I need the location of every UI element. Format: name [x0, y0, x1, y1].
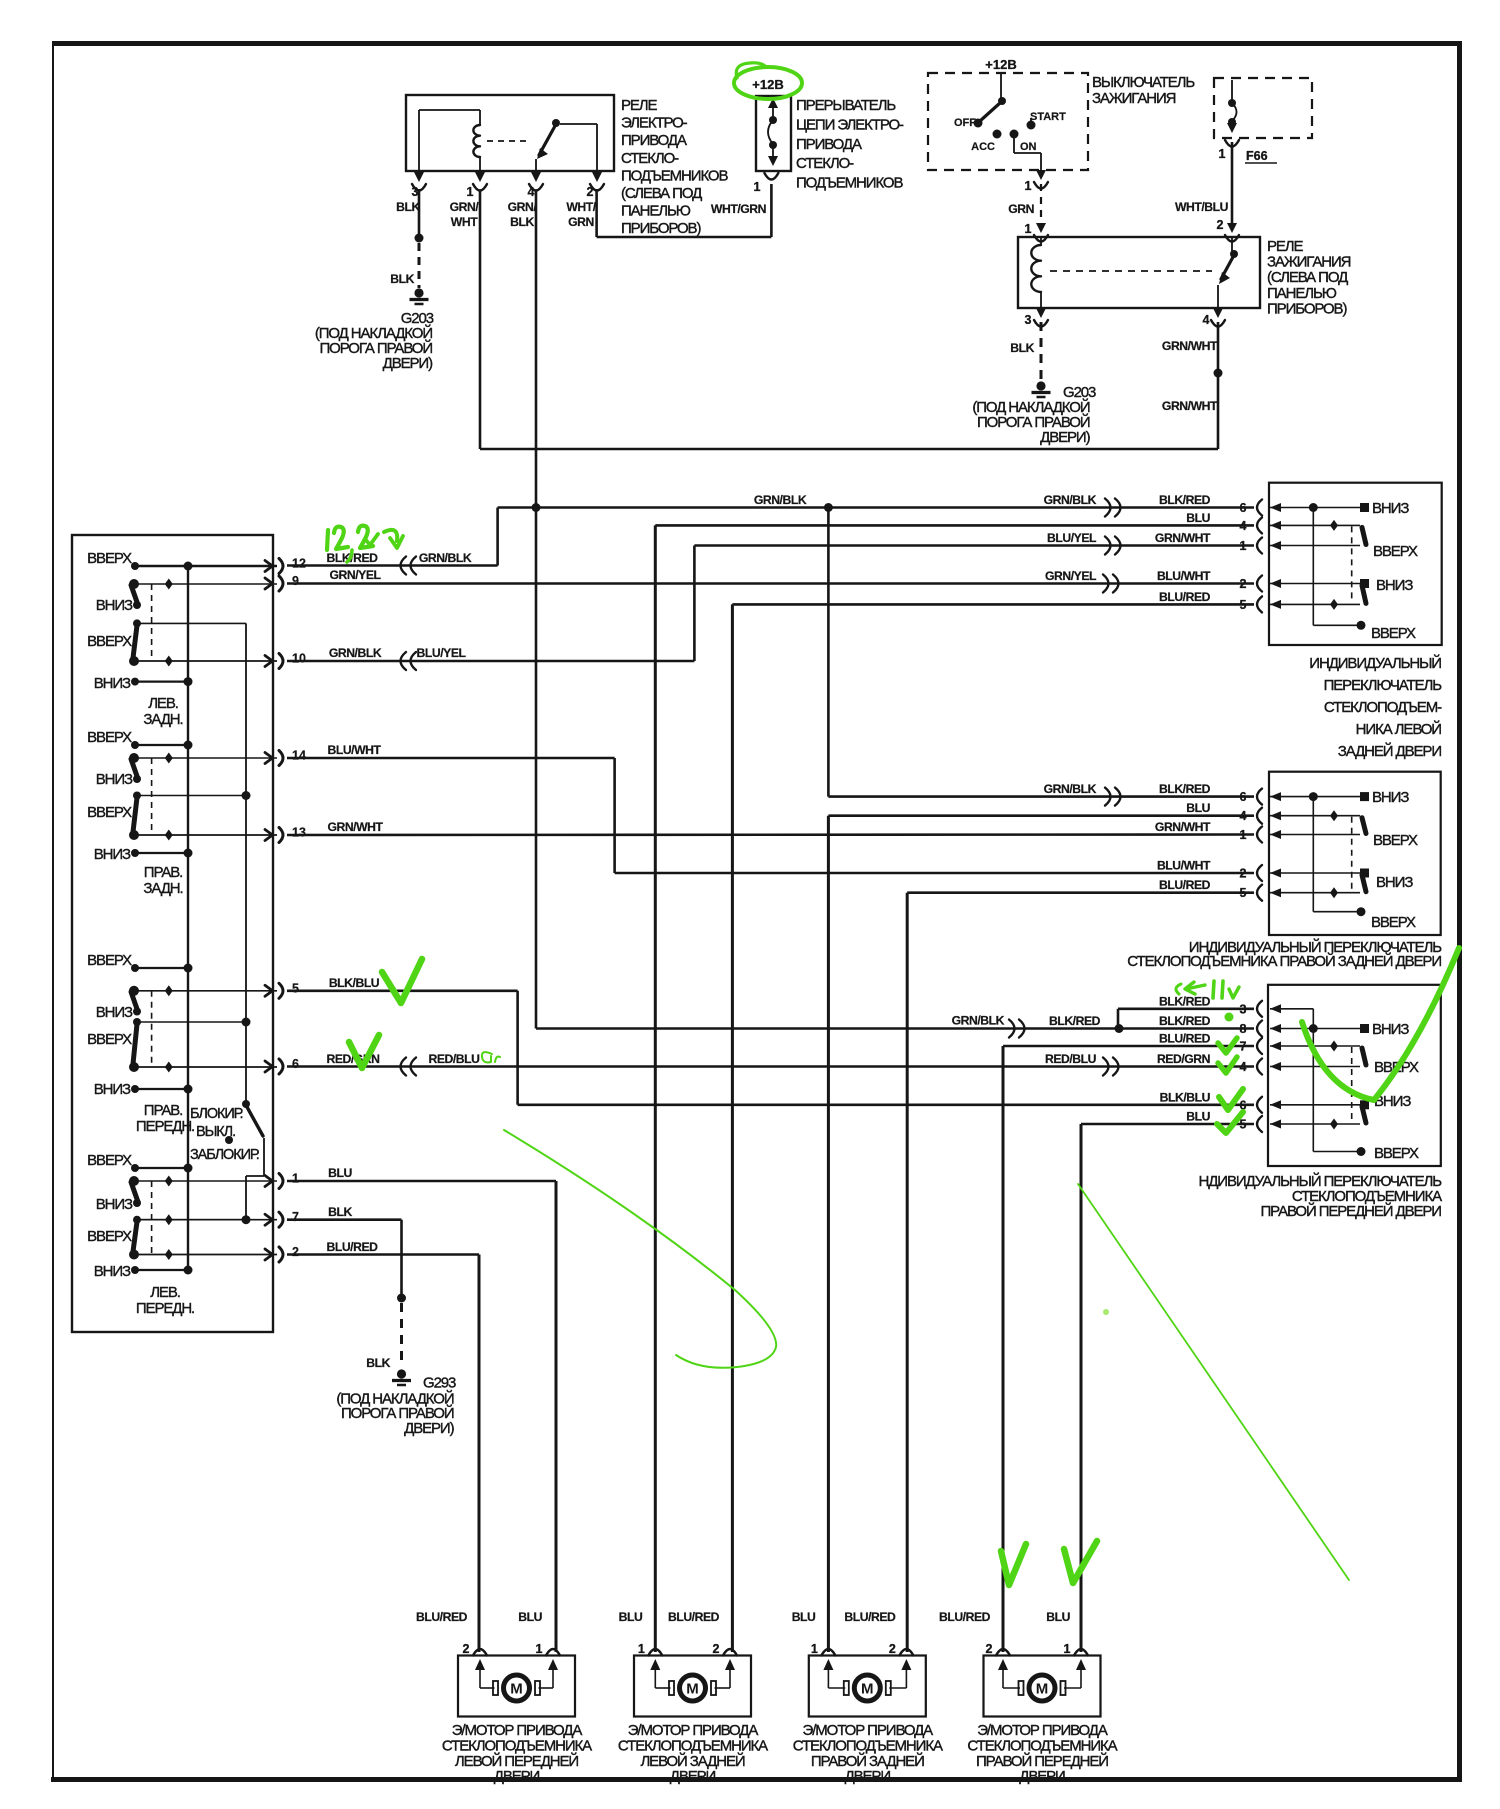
svg-text:BLK: BLK: [366, 1356, 390, 1370]
svg-text:BLU: BLU: [792, 1610, 816, 1624]
svg-text:ВВЕРХ: ВВЕРХ: [87, 633, 132, 650]
svg-text:ON: ON: [1020, 141, 1037, 153]
svg-text:1: 1: [1064, 1642, 1071, 1656]
svg-text:5: 5: [1240, 886, 1247, 900]
svg-text:ПАНЕЛЬЮ: ПАНЕЛЬЮ: [621, 203, 691, 220]
svg-text:10: 10: [292, 652, 306, 666]
svg-text:ВВЕРХ: ВВЕРХ: [1373, 832, 1418, 849]
svg-text:GRN/WHT: GRN/WHT: [1162, 339, 1218, 353]
svg-text:BLU/RED: BLU/RED: [1159, 1032, 1211, 1046]
svg-text:ЗАДН.: ЗАДН.: [143, 711, 182, 728]
svg-text:1: 1: [1219, 147, 1226, 161]
svg-text:BLK: BLK: [510, 215, 534, 229]
svg-text:ДВЕРИ: ДВЕРИ: [670, 1768, 716, 1785]
svg-text:BLU/WHT: BLU/WHT: [327, 743, 381, 757]
svg-text:GRN/YEL: GRN/YEL: [329, 568, 381, 582]
svg-text:ACC: ACC: [971, 141, 995, 153]
svg-text:ЗАЖИГАНИЯ: ЗАЖИГАНИЯ: [1267, 254, 1351, 271]
svg-text:BLK/RED: BLK/RED: [1159, 1014, 1211, 1028]
svg-text:BLU: BLU: [1186, 801, 1210, 815]
svg-text:ЛЕВ.: ЛЕВ.: [148, 695, 178, 712]
svg-text:СТЕКЛО-: СТЕКЛО-: [796, 155, 854, 172]
svg-text:ВНИЗ: ВНИЗ: [1376, 874, 1413, 891]
svg-text:ВВЕРХ: ВВЕРХ: [87, 729, 132, 746]
svg-text:3: 3: [1025, 313, 1032, 327]
svg-text:ПРИВОДА: ПРИВОДА: [621, 132, 687, 149]
svg-text:4: 4: [1203, 313, 1210, 327]
svg-text:1: 1: [1240, 828, 1247, 842]
svg-text:ВВЕРХ: ВВЕРХ: [87, 1031, 132, 1048]
svg-text:1: 1: [1025, 222, 1032, 236]
svg-text:BLU/RED: BLU/RED: [416, 1610, 468, 1624]
svg-text:4: 4: [1240, 519, 1247, 533]
svg-text:ПРАВОЙ ПЕРЕДНЕЙ ДВЕРИ: ПРАВОЙ ПЕРЕДНЕЙ ДВЕРИ: [1260, 1202, 1441, 1220]
svg-text:BLU/WHT: BLU/WHT: [1157, 859, 1211, 873]
svg-text:BLU: BLU: [328, 1166, 352, 1180]
svg-text:+12В: +12В: [752, 77, 783, 92]
svg-text:6: 6: [1240, 790, 1247, 804]
svg-text:GRN/: GRN/: [508, 200, 538, 214]
svg-text:5: 5: [292, 981, 299, 995]
svg-text:BLK/BLU: BLK/BLU: [1160, 1090, 1211, 1104]
svg-text:ВНИЗ: ВНИЗ: [1372, 1021, 1409, 1038]
svg-text:BLU/RED: BLU/RED: [939, 1610, 991, 1624]
svg-text:ВНИЗ: ВНИЗ: [94, 846, 131, 863]
svg-text:ВЫКЛ.: ВЫКЛ.: [196, 1124, 235, 1140]
svg-text:M: M: [1036, 1681, 1049, 1698]
svg-text:RED/BLU: RED/BLU: [428, 1052, 480, 1066]
svg-text:M: M: [861, 1681, 874, 1698]
svg-text:GRN/: GRN/: [450, 200, 480, 214]
svg-text:ВВЕРХ: ВВЕРХ: [87, 952, 132, 969]
svg-text:2: 2: [1217, 218, 1224, 232]
svg-text:ДВЕРИ): ДВЕРИ): [404, 1420, 454, 1437]
svg-text:ЛЕВОЙ ЗАДНЕЙ: ЛЕВОЙ ЗАДНЕЙ: [640, 1752, 744, 1770]
svg-text:GRN/BLK: GRN/BLK: [419, 551, 472, 565]
svg-text:6: 6: [1240, 501, 1247, 515]
svg-text:GRN/BLK: GRN/BLK: [754, 493, 807, 507]
svg-text:ИНДИВИДУАЛЬНЫЙ: ИНДИВИДУАЛЬНЫЙ: [1309, 654, 1441, 672]
svg-text:СТЕКЛО-: СТЕКЛО-: [621, 150, 679, 167]
svg-text:ЗАЖИГАНИЯ: ЗАЖИГАНИЯ: [1092, 90, 1176, 107]
svg-text:BLK: BLK: [328, 1205, 352, 1219]
svg-text:ПЕРЕДН.: ПЕРЕДН.: [136, 1300, 194, 1317]
svg-text:ДВЕРИ: ДВЕРИ: [845, 1768, 891, 1785]
svg-text:BLU/YEL: BLU/YEL: [417, 646, 467, 660]
svg-text:OFF: OFF: [954, 117, 976, 129]
svg-text:BLK/RED: BLK/RED: [1159, 994, 1211, 1008]
svg-text:ПОДЪЕМНИКОВ: ПОДЪЕМНИКОВ: [621, 167, 729, 184]
svg-text:13: 13: [292, 826, 306, 840]
svg-text:ПРАВОЙ ЗАДНЕЙ: ПРАВОЙ ЗАДНЕЙ: [811, 1752, 924, 1770]
svg-text:ПРЕРЫВАТЕЛЬ: ПРЕРЫВАТЕЛЬ: [796, 97, 896, 114]
svg-text:3: 3: [412, 185, 419, 199]
svg-text:ВВЕРХ: ВВЕРХ: [87, 550, 132, 567]
svg-text:GRN: GRN: [568, 215, 594, 229]
svg-text:12: 12: [292, 557, 306, 571]
svg-text:ЗАДН.: ЗАДН.: [143, 880, 182, 897]
svg-text:ВНИЗ: ВНИЗ: [96, 771, 133, 788]
svg-text:BLU/RED: BLU/RED: [326, 1240, 378, 1254]
svg-text:ЭЛЕКТРО-: ЭЛЕКТРО-: [621, 115, 688, 132]
svg-text:4: 4: [1240, 1060, 1247, 1074]
svg-text:2: 2: [1240, 577, 1247, 591]
svg-text:2: 2: [587, 185, 594, 199]
svg-text:GRN/WHT: GRN/WHT: [1162, 399, 1218, 413]
svg-text:BLU/RED: BLU/RED: [1159, 590, 1211, 604]
svg-text:RED/BLU: RED/BLU: [1045, 1052, 1097, 1066]
svg-text:2: 2: [463, 1642, 470, 1656]
svg-text:5: 5: [1240, 598, 1247, 612]
svg-text:START: START: [1030, 111, 1066, 123]
svg-text:СТЕКЛОПОДЪЕМНИКА ПРАВОЙ ЗАДНЕЙ: СТЕКЛОПОДЪЕМНИКА ПРАВОЙ ЗАДНЕЙ ДВЕРИ: [1127, 952, 1441, 970]
svg-text:8: 8: [1240, 1022, 1247, 1036]
svg-text:1: 1: [811, 1642, 818, 1656]
svg-text:BLU/RED: BLU/RED: [668, 1610, 720, 1624]
svg-text:ПРАВ.: ПРАВ.: [144, 864, 182, 881]
svg-text:ПАНЕЛЬЮ: ПАНЕЛЬЮ: [1267, 285, 1337, 302]
svg-text:ПРИБОРОВ): ПРИБОРОВ): [1267, 300, 1347, 317]
svg-text:ДВЕРИ: ДВЕРИ: [494, 1768, 540, 1785]
svg-text:ВНИЗ: ВНИЗ: [94, 675, 131, 692]
svg-text:GRN/WHT: GRN/WHT: [1155, 531, 1211, 545]
svg-text:9: 9: [292, 574, 299, 588]
svg-text:2: 2: [986, 1642, 993, 1656]
svg-text:ВНИЗ: ВНИЗ: [94, 1263, 131, 1280]
svg-text:WHT/BLU: WHT/BLU: [1175, 200, 1229, 214]
svg-text:RED/GRN: RED/GRN: [1157, 1052, 1210, 1066]
svg-text:GRN/BLK: GRN/BLK: [1044, 493, 1097, 507]
svg-text:GRN: GRN: [1008, 202, 1034, 216]
svg-text:ВНИЗ: ВНИЗ: [1372, 500, 1409, 517]
svg-text:ВНИЗ: ВНИЗ: [96, 1004, 133, 1021]
svg-text:2: 2: [713, 1642, 720, 1656]
svg-text:WHT/GRN: WHT/GRN: [711, 202, 766, 216]
svg-text:ПОДЪЕМНИКОВ: ПОДЪЕМНИКОВ: [796, 175, 904, 192]
svg-text:2: 2: [292, 1245, 299, 1259]
svg-text:GRN/YEL: GRN/YEL: [1045, 569, 1097, 583]
svg-text:ВВЕРХ: ВВЕРХ: [87, 804, 132, 821]
svg-text:ЗАБЛОКИР.: ЗАБЛОКИР.: [190, 1147, 259, 1163]
svg-text:ЛЕВОЙ ПЕРЕДНЕЙ: ЛЕВОЙ ПЕРЕДНЕЙ: [455, 1752, 578, 1770]
svg-text:РЕЛЕ: РЕЛЕ: [1267, 238, 1304, 255]
svg-text:BLK: BLK: [390, 272, 414, 286]
svg-text:M: M: [510, 1681, 523, 1698]
svg-text:7: 7: [292, 1210, 299, 1224]
svg-text:BLK/BLU: BLK/BLU: [329, 976, 380, 990]
svg-text:BLK/RED: BLK/RED: [1049, 1014, 1101, 1028]
svg-text:1: 1: [638, 1642, 645, 1656]
svg-text:ВНИЗ: ВНИЗ: [94, 1081, 131, 1098]
svg-text:14: 14: [292, 749, 306, 763]
svg-text:BLU: BLU: [1046, 1610, 1070, 1624]
svg-text:+12В: +12В: [985, 57, 1016, 72]
svg-text:GRN/BLK: GRN/BLK: [329, 646, 382, 660]
svg-text:1: 1: [292, 1172, 299, 1186]
svg-text:РЕЛЕ: РЕЛЕ: [621, 97, 658, 114]
svg-text:ДВЕРИ): ДВЕРИ): [383, 355, 433, 372]
svg-text:GRN/BLK: GRN/BLK: [1044, 782, 1097, 796]
svg-text:BLU: BLU: [518, 1610, 542, 1624]
svg-text:BLU/RED: BLU/RED: [844, 1610, 896, 1624]
svg-text:ПРИВОДА: ПРИВОДА: [796, 136, 862, 153]
svg-text:1: 1: [1240, 539, 1247, 553]
svg-text:ДВЕРИ): ДВЕРИ): [1040, 429, 1090, 446]
svg-text:ЛЕВ.: ЛЕВ.: [150, 1284, 180, 1301]
svg-text:1: 1: [754, 180, 761, 194]
svg-text:СТЕКЛОПОДЪЕМ-: СТЕКЛОПОДЪЕМ-: [1324, 699, 1442, 716]
svg-text:BLU: BLU: [619, 1610, 643, 1624]
svg-text:GRN/WHT: GRN/WHT: [1155, 820, 1211, 834]
svg-text:2: 2: [1240, 867, 1247, 881]
svg-text:ПЕРЕКЛЮЧАТЕЛЬ: ПЕРЕКЛЮЧАТЕЛЬ: [1324, 677, 1443, 694]
svg-text:БЛОКИР.: БЛОКИР.: [190, 1106, 243, 1122]
svg-text:ВЫКЛЮЧАТЕЛЬ: ВЫКЛЮЧАТЕЛЬ: [1092, 74, 1195, 91]
svg-text:(СЛЕВА ПОД: (СЛЕВА ПОД: [1267, 269, 1348, 286]
svg-text:4: 4: [1240, 809, 1247, 823]
svg-text:BLK/RED: BLK/RED: [1159, 493, 1211, 507]
svg-text:4: 4: [528, 185, 535, 199]
svg-text:1: 1: [467, 185, 474, 199]
svg-text:ВВЕРХ: ВВЕРХ: [1374, 1145, 1419, 1162]
svg-text:6: 6: [292, 1057, 299, 1071]
svg-text:GRN/WHT: GRN/WHT: [327, 820, 383, 834]
svg-text:7: 7: [1240, 1040, 1247, 1054]
svg-text:НИКА ЛЕВОЙ: НИКА ЛЕВОЙ: [1356, 720, 1442, 738]
svg-text:M: M: [686, 1681, 699, 1698]
svg-text:ПРАВОЙ ПЕРЕДНЕЙ: ПРАВОЙ ПЕРЕДНЕЙ: [976, 1752, 1108, 1770]
svg-text:BLU: BLU: [1186, 511, 1210, 525]
svg-text:ВВЕРХ: ВВЕРХ: [1371, 625, 1416, 642]
svg-text:WHT/: WHT/: [566, 200, 596, 214]
svg-text:G293: G293: [423, 1375, 456, 1392]
svg-text:ДВЕРИ: ДВЕРИ: [1019, 1768, 1065, 1785]
svg-text:BLK: BLK: [1010, 341, 1034, 355]
svg-text:ПЕРЕДН.: ПЕРЕДН.: [136, 1118, 194, 1135]
svg-text:BLU: BLU: [1186, 1110, 1210, 1124]
svg-text:ЦЕПИ ЭЛЕКТРО-: ЦЕПИ ЭЛЕКТРО-: [796, 116, 904, 133]
svg-text:ВНИЗ: ВНИЗ: [1372, 789, 1409, 806]
svg-text:1: 1: [1025, 179, 1032, 193]
svg-text:BLU/YEL: BLU/YEL: [1047, 531, 1097, 545]
svg-text:BLK/RED: BLK/RED: [1159, 782, 1211, 796]
svg-text:3: 3: [1240, 1002, 1247, 1016]
svg-text:ВВЕРХ: ВВЕРХ: [1373, 543, 1418, 560]
svg-text:ВВЕРХ: ВВЕРХ: [1371, 914, 1416, 931]
svg-text:WHT: WHT: [451, 215, 478, 229]
svg-text:BLK: BLK: [396, 200, 420, 214]
svg-text:ВНИЗ: ВНИЗ: [96, 1196, 133, 1213]
svg-text:BLU/RED: BLU/RED: [1159, 878, 1211, 892]
svg-text:ВНИЗ: ВНИЗ: [1376, 577, 1413, 594]
svg-text:1: 1: [536, 1642, 543, 1656]
svg-text:2: 2: [889, 1642, 896, 1656]
svg-text:GRN/BLK: GRN/BLK: [952, 1014, 1005, 1028]
svg-text:ЗАДНЕЙ ДВЕРИ: ЗАДНЕЙ ДВЕРИ: [1338, 742, 1442, 760]
svg-text:ВНИЗ: ВНИЗ: [96, 597, 133, 614]
svg-text:F66: F66: [1246, 149, 1268, 163]
svg-text:ВВЕРХ: ВВЕРХ: [87, 1152, 132, 1169]
svg-text:(СЛЕВА ПОД: (СЛЕВА ПОД: [621, 185, 702, 202]
svg-text:ВВЕРХ: ВВЕРХ: [87, 1228, 132, 1245]
svg-text:ПРИБОРОВ): ПРИБОРОВ): [621, 220, 701, 237]
svg-text:BLU/WHT: BLU/WHT: [1157, 569, 1211, 583]
svg-text:ПРАВ.: ПРАВ.: [144, 1102, 182, 1119]
